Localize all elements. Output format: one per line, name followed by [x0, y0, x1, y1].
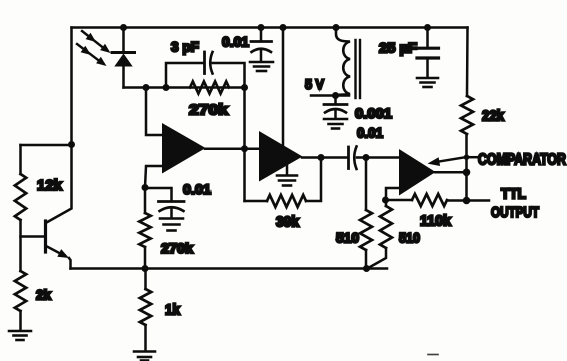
node dot feedback right: [241, 84, 248, 91]
node dot summing node: [143, 84, 150, 91]
node dot rail at 25uF: [424, 24, 431, 31]
svg-text:OUTPUT: OUTPUT: [491, 204, 539, 221]
op-amp U1: [162, 123, 206, 174]
svg-text:0.001: 0.001: [355, 105, 392, 121]
wire 3pF loop left: [166, 63, 203, 88]
light arrow 1: [82, 31, 111, 53]
svg-text:510: 510: [336, 230, 359, 246]
node dot opamp1 inv node: [142, 184, 149, 191]
node dot bottom rail right: [363, 265, 370, 272]
node dot bottom rail junction: [142, 265, 149, 272]
svg-text:TTL: TTL: [501, 186, 526, 203]
svg-text:0.01: 0.01: [357, 125, 383, 141]
transistor Q1 emitter with arrow: [46, 246, 69, 258]
wire photodiode anode: [122, 28, 125, 53]
svg-text:3 pF: 3 pF: [171, 39, 199, 55]
wire to 0.01 bypass cap: [145, 188, 172, 200]
comparator label arrow: [428, 157, 467, 166]
wire 39k loop left: [245, 200, 268, 203]
node dot opamp2 input junction: [241, 145, 248, 152]
resistor R 510 left: [360, 210, 372, 250]
op-amp U2: [259, 131, 303, 182]
svg-text:22k: 22k: [482, 109, 505, 125]
capacitor C 0.01 stage1: [159, 202, 185, 218]
node dot TTL junction: [463, 197, 471, 205]
wire TTL output stub: [467, 199, 490, 202]
wire left vertical from top rail to transistor collector: [47, 28, 72, 223]
node dot rail at opamp2: [280, 24, 287, 31]
inductor T1 winding: [336, 28, 350, 96]
capacitor C 25uF: [417, 28, 439, 78]
svg-text:270k: 270k: [189, 103, 229, 119]
wire 12k to base node and down to 2k: [19, 220, 22, 271]
ground below 0.01 top: [250, 62, 273, 71]
wire inv node to 270k vertical: [144, 188, 147, 214]
wire opamp2 output: [302, 156, 348, 159]
speck: [206, 190, 211, 192]
wire 110k left: [386, 199, 413, 202]
svg-text:510: 510: [399, 230, 420, 246]
wire opamp1 output: [205, 147, 259, 150]
resistor R 2k: [15, 271, 26, 311]
wire emitter to bottom rail: [69, 258, 71, 269]
node dot 5V node: [332, 92, 339, 99]
node dot opamp2 output junction: [318, 154, 325, 161]
ground below 0.01 stage1: [160, 219, 183, 231]
ground below 1k: [134, 352, 155, 361]
wire comparator inv input L: [386, 188, 400, 200]
wire feedback vertical into opamp2 loop: [243, 88, 246, 202]
resistor R 39k: [267, 195, 306, 207]
transformer core bars: [356, 40, 361, 98]
transistor Q1 base bar: [44, 221, 47, 252]
photodiode D1: [112, 53, 135, 88]
svg-text:1k: 1k: [165, 303, 181, 319]
wire comparator label stub: [467, 156, 478, 159]
ground below opamp2: [277, 165, 297, 186]
light arrow 2: [77, 44, 107, 66]
capacitor C 0.001: [324, 96, 347, 119]
svg-text:39k: 39k: [276, 215, 300, 231]
wire 2k to ground: [19, 311, 22, 330]
resistor R 22k: [461, 96, 473, 134]
node dot feedback cap branch: [163, 84, 170, 91]
resistor R 270k vertical: [139, 213, 150, 247]
svg-text:270k: 270k: [161, 241, 194, 256]
svg-text:COMPARATOR: COMPARATOR: [478, 152, 566, 169]
resistor R 270k feedback: [190, 82, 229, 94]
wire 39k loop right: [306, 158, 321, 202]
wire coupling cap to comparator: [357, 156, 400, 159]
node dot rail at 0.01 cap: [258, 24, 265, 31]
svg-text:110k: 110k: [420, 214, 452, 230]
op-amp U3 comparator: [399, 149, 436, 196]
node dot divider top: [363, 154, 370, 161]
ground below 0.001: [324, 119, 347, 129]
wire comparator output: [435, 171, 467, 174]
wire 110k right: [447, 199, 467, 202]
wire top supply rail: [72, 26, 468, 29]
svg-text:25 µF: 25 µF: [379, 40, 417, 56]
wire 5V feed: [311, 94, 349, 97]
svg-text:0.01: 0.01: [183, 181, 211, 197]
resistor R 110k: [412, 194, 447, 206]
wire link to 12k branch: [21, 144, 72, 147]
resistor R 12k: [15, 174, 26, 220]
ground below 25uF: [417, 78, 438, 87]
wire 12k branch top stub: [19, 145, 22, 174]
node dot comparator inv node: [382, 197, 389, 204]
wire 270k to bottom rail: [144, 247, 147, 269]
node junction at left vertical y145: [68, 141, 75, 148]
node dot rail at transformer: [333, 24, 340, 31]
node dot comparator line junction: [464, 154, 470, 160]
wire top rail to opamp2: [282, 28, 285, 147]
resistor R 510 right: [369, 200, 392, 268]
speck: [428, 354, 438, 356]
wire opamp1 noninv input: [146, 88, 162, 136]
wire bottom rail: [71, 267, 388, 270]
node dot top rail at photodiode: [120, 24, 127, 31]
node dot output junction: [463, 169, 471, 177]
capacitor C 0.01 top: [251, 28, 272, 62]
wire 22k down right column: [465, 134, 468, 201]
svg-text:5 V: 5 V: [305, 76, 325, 92]
wire rail corner to 22k: [466, 28, 469, 97]
wire 510 left to bottom rail: [365, 250, 368, 269]
wire photodiode cathode to summing node: [124, 86, 245, 89]
capacitor C 0.01 coupling: [349, 147, 357, 170]
resistor R 1k: [140, 269, 151, 351]
ground below 2k: [9, 331, 31, 340]
wire 3pF loop right: [213, 63, 245, 88]
svg-text:0.01: 0.01: [222, 34, 249, 50]
svg-text:12k: 12k: [37, 178, 63, 194]
wire base lead: [21, 235, 45, 238]
wire divider vertical: [365, 158, 368, 211]
svg-text:2k: 2k: [36, 287, 51, 303]
capacitor C 3pF: [205, 52, 213, 74]
wire opamp1 inv input: [145, 166, 162, 188]
